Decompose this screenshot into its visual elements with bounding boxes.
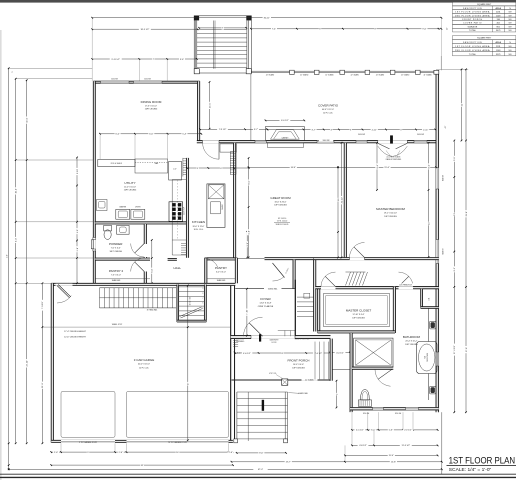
wall west exterior <box>93 81 95 283</box>
svg-text:S.F.: S.F. <box>508 30 512 32</box>
dim row mid-left above utility <box>100 133 201 135</box>
svg-text:10 Ft. CLG.: 10 Ft. CLG. <box>139 367 149 370</box>
dining closet rod and shelf <box>98 159 135 166</box>
svg-text:3068 ENTRY: 3068 ENTRY <box>269 340 278 342</box>
left dimension stack line A <box>8 68 10 469</box>
svg-text:3060 SW: 3060 SW <box>323 140 330 142</box>
cover patio guard rail north with posts <box>249 70 436 72</box>
wall dining east <box>198 81 200 140</box>
svg-text:TOTAL: TOTAL <box>469 53 477 56</box>
svg-text:7'-4": 7'-4" <box>272 29 276 31</box>
svg-text:O.F.S. 105.00: O.F.S. 105.00 <box>277 221 287 223</box>
top dimension row 2 right <box>251 28 441 30</box>
svg-text:11'-3 1/2": 11'-3 1/2" <box>401 445 410 447</box>
svg-text:18'-5 1/2": 18'-5 1/2" <box>140 29 149 31</box>
svg-text:SQUARE FEET: SQUARE FEET <box>477 3 492 6</box>
powder east wall with door <box>144 224 146 244</box>
powder sink <box>117 225 130 234</box>
kitchen counter south hatch <box>181 243 186 245</box>
svg-text:S.F.: S.F. <box>508 46 512 48</box>
deck side rails <box>194 21 196 69</box>
svg-text:DRYER: DRYER <box>135 207 141 209</box>
porch post <box>282 379 288 385</box>
garage stair up along north wall <box>99 288 101 308</box>
svg-text:AREA: AREA <box>495 41 501 44</box>
deck inner rail <box>213 21 215 69</box>
svg-text:2ND FLOOR LIVING AREA: 2ND FLOOR LIVING AREA <box>455 49 490 52</box>
window 5050 SW dining north 2 <box>134 81 163 83</box>
bathroom west wall <box>350 333 352 412</box>
svg-text:3050 SW: 3050 SW <box>417 134 424 136</box>
svg-text:10FT CEILING: 10FT CEILING <box>292 367 305 369</box>
upper deck stair structure top middle <box>194 16 251 73</box>
svg-text:16'-6": 16'-6" <box>291 167 297 169</box>
svg-text:7'-10": 7'-10" <box>247 309 249 315</box>
left dimension stack line B <box>15 79 17 444</box>
page bottom border lines <box>0 473 516 475</box>
bottom dim row 4 <box>232 461 442 463</box>
steps bottom posts <box>234 439 238 443</box>
window great room north small <box>255 140 267 143</box>
svg-text:S.F.: S.F. <box>508 54 512 56</box>
svg-text:8'-6": 8'-6" <box>428 164 430 168</box>
svg-text:14'-8" X 10'-8": 14'-8" X 10'-8" <box>260 303 272 305</box>
svg-text:24'-10": 24'-10" <box>27 360 29 367</box>
washer and dryer <box>116 209 130 219</box>
garage entry door at northwest <box>56 284 73 286</box>
svg-text:12'-6" CEILING HEIGHT: 12'-6" CEILING HEIGHT <box>64 336 87 338</box>
great room south rail line <box>237 257 265 259</box>
master closet east wall <box>393 287 395 333</box>
stair break diagonal <box>180 307 202 317</box>
svg-text:2'-6": 2'-6" <box>119 452 123 454</box>
svg-text:1ST FLOOR LIVING AREA: 1ST FLOOR LIVING AREA <box>455 11 490 14</box>
svg-text:UTILITY: UTILITY <box>124 181 135 185</box>
toilet master bath <box>358 400 371 407</box>
master bedroom interior dims <box>376 143 378 190</box>
svg-text:4'-11": 4'-11" <box>372 129 377 131</box>
svg-text:SUB FLR 104.85: SUB FLR 104.85 <box>276 224 289 226</box>
windows 3050 SW either side of patio doors <box>356 140 367 143</box>
bottom dim row garage doors <box>51 451 233 453</box>
svg-text:2ND FLOOR LIVING AREA: 2ND FLOOR LIVING AREA <box>455 14 490 17</box>
steps center handrail <box>247 392 249 441</box>
pantry hatch strip <box>183 158 187 160</box>
svg-text:SHELVES: SHELVES <box>217 280 226 282</box>
svg-text:1ST FLOOR LIVING AREA: 1ST FLOOR LIVING AREA <box>455 45 490 48</box>
svg-text:2'-9 1/2": 2'-9 1/2" <box>404 430 412 432</box>
svg-text:POWDER: POWDER <box>109 242 123 246</box>
svg-text:20'-0" X 11'-0": 20'-0" X 11'-0" <box>193 226 205 228</box>
svg-text:7'-6" X 6'-0": 7'-6" X 6'-0" <box>111 275 121 277</box>
svg-text:8'-6": 8'-6" <box>259 453 263 455</box>
cabinet dimension 6-6 <box>266 119 305 121</box>
svg-text:11'-6": 11'-6" <box>42 382 44 387</box>
svg-text:6'-6 1/2": 6'-6 1/2" <box>281 120 289 122</box>
corridor south wall / closet north <box>315 287 439 289</box>
window 6040 SH east wall 2 <box>436 240 439 264</box>
hall width dim above foyer <box>246 231 248 258</box>
svg-text:DINING ROOM: DINING ROOM <box>141 100 162 104</box>
svg-text:13'-6": 13'-6" <box>209 102 211 108</box>
svg-text:10FT CEILING: 10FT CEILING <box>274 205 287 207</box>
svg-text:10FT CEILING: 10FT CEILING <box>145 109 158 111</box>
svg-text:COVER PATIO: COVER PATIO <box>318 104 339 108</box>
pantry2 door arc <box>131 258 145 272</box>
square feet schedule table 1 <box>453 2 516 32</box>
left dimension stack line D <box>41 283 43 443</box>
master closet south wall <box>318 331 395 333</box>
powder door arc <box>131 244 145 258</box>
hall-stair wall segment <box>168 259 177 261</box>
corridor wall along master suite <box>314 258 439 260</box>
svg-text:S.F.: S.F. <box>508 50 512 52</box>
svg-text:4'-0 1/2": 4'-0 1/2" <box>336 352 344 354</box>
front entry steps <box>236 392 238 441</box>
window 3060 SW great room north <box>317 140 334 143</box>
svg-text:TOTAL: TOTAL <box>469 29 477 32</box>
svg-text:SCALE: 1/4" = 1'-0": SCALE: 1/4" = 1'-0" <box>449 467 492 472</box>
top dim extension lines <box>91 18 93 81</box>
svg-text:16' X 8' GARAGE DOOR: 16' X 8' GARAGE DOOR <box>168 441 188 444</box>
svg-text:DESCRIPTION: DESCRIPTION <box>463 42 482 44</box>
basement stair enclosure walls <box>177 285 179 323</box>
svg-text:2'-6": 2'-6" <box>54 452 58 454</box>
svg-text:3050 SH: 3050 SH <box>363 413 370 415</box>
svg-text:TUB: TUB <box>425 356 427 359</box>
svg-text:ROD & SHELF: ROD & SHELF <box>111 163 122 165</box>
svg-text:17'-2 1/2": 17'-2 1/2" <box>454 345 456 354</box>
svg-text:10FT CEILING: 10FT CEILING <box>352 317 365 319</box>
svg-text:19'-7": 19'-7" <box>286 462 292 464</box>
svg-text:6040 SH: 6040 SH <box>442 174 444 181</box>
svg-text:KITCHEN: KITCHEN <box>192 220 205 224</box>
svg-text:3'-0": 3'-0" <box>6 254 8 258</box>
kitchen north counter <box>220 144 236 152</box>
svg-text:4'-8 1/2": 4'-8 1/2" <box>359 445 367 447</box>
svg-text:3 CAR GARGE: 3 CAR GARGE <box>134 358 155 362</box>
cabinet hearth box below wall <box>268 143 304 148</box>
south wall bathroom with windows <box>350 408 439 410</box>
svg-text:MASTER CLOSET: MASTER CLOSET <box>346 308 372 312</box>
window east wall bathroom <box>436 352 439 366</box>
bottom dim row bathroom <box>352 429 438 431</box>
cabinet hatch on great room west wall <box>230 151 236 153</box>
master closet shelf inner rectangle <box>324 294 390 327</box>
svg-text:2'-0": 2'-0" <box>173 169 177 171</box>
svg-text:1ST FLOOR PLAN: 1ST FLOOR PLAN <box>449 455 515 465</box>
kitchen dim row <box>187 167 248 169</box>
square feet schedule table 2 <box>453 36 516 56</box>
svg-text:10'-0": 10'-0" <box>16 188 18 194</box>
pantry room <box>205 258 237 260</box>
svg-text:5'-6": 5'-6" <box>454 156 456 160</box>
svg-text:6'-0": 6'-0" <box>16 238 18 242</box>
top dimension row 1 overall <box>92 17 441 19</box>
garage south wall with door openings <box>51 440 233 442</box>
svg-text:7'-6 1/2": 7'-6 1/2" <box>315 353 323 355</box>
patio cabinet / outdoor fireplace <box>266 127 305 141</box>
svg-text:3'-0": 3'-0" <box>77 229 79 233</box>
svg-text:GREAT ROOM: GREAT ROOM <box>270 196 291 200</box>
svg-text:10FT CEILING: 10FT CEILING <box>124 190 137 192</box>
svg-text:WHEEL STOP: WHEEL STOP <box>112 324 122 326</box>
svg-text:LIN.: LIN. <box>429 297 431 301</box>
utility counter sink west <box>97 200 108 211</box>
dining bar cabinet <box>135 159 168 173</box>
svg-text:10 Ft. CLG.: 10 Ft. CLG. <box>323 111 333 114</box>
svg-text:6'-6": 6'-6" <box>377 164 379 168</box>
svg-text:6'-0" X 6'-0": 6'-0" X 6'-0" <box>216 272 226 274</box>
svg-text:6040 SH: 6040 SH <box>442 248 444 255</box>
window 6040 SH east wall 1 <box>436 168 439 190</box>
kitchen west counter strip <box>171 180 173 256</box>
toilet compartment wall and door <box>352 367 393 369</box>
dim row kitchen side <box>200 128 267 130</box>
svg-text:2'-6": 2'-6" <box>229 452 233 454</box>
page top border band <box>0 0 516 3</box>
svg-text:15'-8": 15'-8" <box>391 462 397 464</box>
bottom dim row 2 <box>352 444 438 446</box>
svg-text:10FT CEILING: 10FT CEILING <box>384 216 397 218</box>
svg-text:42": 42" <box>445 125 447 128</box>
deck stair treads <box>197 29 247 31</box>
svg-text:PANTRY: PANTRY <box>215 266 227 270</box>
svg-text:8'-6": 8'-6" <box>248 180 250 184</box>
window 5050 SW dining north 1 <box>101 81 130 83</box>
steps newel dark bar <box>262 400 264 411</box>
porch south guard rail <box>232 379 331 381</box>
linen closet diagonal shelves <box>346 272 351 286</box>
porch steps east side <box>314 342 316 380</box>
svg-text:7'-3 1/2": 7'-3 1/2" <box>219 129 227 131</box>
svg-text:17'-8": 17'-8" <box>466 347 468 353</box>
bedroom door opening and arc into bedroom <box>350 257 365 260</box>
porch-bath side dims <box>330 352 350 354</box>
svg-text:5'-8": 5'-8" <box>248 230 250 234</box>
kitchen island with sink <box>207 184 225 228</box>
kitchen west wall <box>186 158 188 258</box>
svg-text:2'-11": 2'-11" <box>423 129 428 131</box>
top dimension row 3 <box>92 58 197 60</box>
svg-text:5'-10": 5'-10" <box>77 169 79 175</box>
foyer north wall and under-stair closet <box>265 258 314 260</box>
svg-text:7'-0 1/2": 7'-0 1/2" <box>42 301 44 309</box>
svg-text:COOK TOP: COOK TOP <box>184 207 186 215</box>
svg-text:HALL: HALL <box>174 266 182 270</box>
foyer width dim <box>246 289 248 336</box>
svg-text:GARAGE: GARAGE <box>468 25 478 28</box>
svg-text:6'-6": 6'-6" <box>115 134 119 136</box>
svg-text:3050 SW: 3050 SW <box>358 134 365 136</box>
svg-text:COVER PATIO: COVER PATIO <box>463 22 482 25</box>
svg-text:9'-6": 9'-6" <box>422 29 426 31</box>
svg-text:6'-6": 6'-6" <box>149 134 153 136</box>
garage west wall <box>51 283 53 442</box>
svg-text:2470 FRENCH DR: 2470 FRENCH DR <box>399 285 413 287</box>
svg-text:FRONT PORCH: FRONT PORCH <box>288 359 310 363</box>
svg-text:14 R @ 7 3/4": 14 R @ 7 3/4" <box>190 296 192 305</box>
svg-text:MASTER BEDROOM: MASTER BEDROOM <box>376 207 405 211</box>
garage interior dim <box>187 286 189 441</box>
utility south wall <box>95 222 186 224</box>
garage door recess rectangles <box>61 392 115 438</box>
svg-text:44'-6" X 12'-0": 44'-6" X 12'-0" <box>322 109 334 111</box>
closet door arc swings into corridor <box>321 286 336 289</box>
left interior dim line powder column <box>76 158 78 284</box>
svg-text:67'-4": 67'-4" <box>258 469 264 471</box>
house south wall at porch / foyer <box>231 336 331 339</box>
svg-text:12'-0" X 10'-0": 12'-0" X 10'-0" <box>124 187 136 189</box>
top dimension row 2 left <box>92 28 197 30</box>
svg-text:6'-0": 6'-0" <box>152 268 154 272</box>
great room vertical dims <box>248 158 250 258</box>
side door jamb on west wall <box>93 238 96 252</box>
svg-text:4'-6 1/2": 4'-6 1/2" <box>243 353 251 355</box>
east exterior wall <box>436 70 439 412</box>
svg-text:3'-7": 3'-7" <box>254 129 258 131</box>
svg-text:17'-6" X 13'-0": 17'-6" X 13'-0" <box>145 106 157 108</box>
master bedroom west wall <box>344 143 346 258</box>
great room dim row <box>249 166 436 168</box>
svg-text:5'-6": 5'-6" <box>389 430 393 432</box>
cover patio west edge line <box>250 73 252 141</box>
pantry2 east wall with door <box>144 272 146 284</box>
page left edge band <box>0 30 2 480</box>
svg-text:4'-5 1/2": 4'-5 1/2" <box>356 430 364 432</box>
svg-text:7'-6" X 6'-0": 7'-6" X 6'-0" <box>111 248 121 250</box>
svg-text:10 Ft. CLG.: 10 Ft. CLG. <box>194 228 204 231</box>
svg-text:5050 SW: 5050 SW <box>144 79 151 81</box>
steps at garage door to house <box>233 340 238 342</box>
shower with cross <box>354 338 393 367</box>
bathroom door arc swings into corridor <box>399 286 414 289</box>
dining interior vertical dim <box>209 82 211 129</box>
steps bottom dim <box>237 452 286 454</box>
porch dims <box>235 352 330 354</box>
bottom dim extension lines <box>351 412 353 430</box>
svg-text:2'-8": 2'-8" <box>77 247 79 251</box>
left dim connectors <box>9 67 93 69</box>
garage door side dim <box>235 352 247 354</box>
door dining to great room + swing arc <box>203 140 220 143</box>
svg-text:OPEN TO ABOVE: OPEN TO ABOVE <box>258 305 274 308</box>
svg-text:16'-0" X 6'-6": 16'-0" X 6'-6" <box>293 364 304 366</box>
stair to second floor <box>294 280 296 336</box>
powder toilet <box>104 225 112 231</box>
svg-text:2068 DOOR: 2068 DOOR <box>236 339 245 341</box>
svg-text:9' X 8' GARAGE DOOR: 9' X 8' GARAGE DOOR <box>79 441 98 444</box>
hall vertical dim <box>151 240 153 283</box>
svg-text:3'-1": 3'-1" <box>371 430 375 432</box>
hall-foyer guard rail <box>235 288 295 290</box>
wall great room / master bedroom north <box>197 141 439 143</box>
kitchen tall cabinet 2-0 <box>169 161 182 180</box>
garage east wall double <box>230 286 232 441</box>
patio dim row <box>268 129 436 131</box>
deck dim 7ft <box>199 27 246 29</box>
pantry door arc <box>205 259 218 268</box>
cook top with burners <box>169 202 183 222</box>
front entry door opening with sidelites <box>251 335 295 339</box>
svg-text:16'-6" X 26'-0": 16'-6" X 26'-0" <box>275 202 287 204</box>
right dimension stack <box>436 68 468 70</box>
svg-text:9'-11 1/2": 9'-11 1/2" <box>111 59 120 61</box>
svg-text:5050 SW: 5050 SW <box>111 79 118 81</box>
svg-text:AREA: AREA <box>495 7 501 10</box>
bottom overall dim <box>9 468 442 470</box>
garage north wall <box>51 283 235 285</box>
svg-text:FOYER: FOYER <box>260 297 271 301</box>
svg-text:%: % <box>509 42 511 44</box>
kitchen-great room boundary wall <box>234 143 236 258</box>
svg-text:36'-11": 36'-11" <box>264 18 271 20</box>
svg-text:10FT CEILING: 10FT CEILING <box>405 344 418 346</box>
foyer closet angled door <box>273 263 285 278</box>
powder south wall <box>95 258 150 260</box>
svg-text:19'-2" X 20'-10": 19'-2" X 20'-10" <box>384 213 397 215</box>
french patio doors to master bedroom <box>378 140 408 143</box>
deck posts white bottom <box>194 69 199 74</box>
svg-text:11'-6": 11'-6" <box>27 117 29 122</box>
svg-text:SQUARE FEET: SQUARE FEET <box>477 37 492 40</box>
svg-text:15'-6": 15'-6" <box>384 167 390 169</box>
basement stair treads <box>179 286 205 288</box>
svg-text:3'-6": 3'-6" <box>180 59 184 61</box>
svg-text:BATHROOM: BATHROOM <box>403 335 421 339</box>
bottom dim row 3 <box>345 454 438 456</box>
master closet walls <box>318 287 320 333</box>
svg-text:42": 42" <box>447 27 449 30</box>
vanity counter with two sinks <box>427 308 429 342</box>
svg-text:3'-7": 3'-7" <box>311 129 315 131</box>
freestanding tub <box>417 342 438 374</box>
svg-text:26'-10": 26'-10" <box>341 197 343 204</box>
linen closet northeast of bathroom <box>421 289 423 309</box>
wall dining room north <box>93 81 199 83</box>
svg-text:25'-8": 25'-8" <box>466 211 468 217</box>
svg-text:SIDELITE TEMPERED: SIDELITE TEMPERED <box>295 339 310 341</box>
svg-text:3050 SH: 3050 SH <box>395 413 402 415</box>
svg-text:10FT CEILING: 10FT CEILING <box>109 251 122 253</box>
porch east wall <box>330 339 332 381</box>
svg-text:PANTRY 2: PANTRY 2 <box>109 269 124 273</box>
svg-text:20'-4" X 10'-2": 20'-4" X 10'-2" <box>405 341 417 343</box>
patio corner post <box>434 70 439 74</box>
svg-text:15'-4": 15'-4" <box>389 455 395 457</box>
svg-text:40'-0" X 23'-0": 40'-0" X 23'-0" <box>138 364 150 366</box>
svg-text:12'-10" X 6'-6": 12'-10" X 6'-6" <box>353 314 365 316</box>
french door label corridor <box>396 283 415 286</box>
svg-text:SHELVES: SHELVES <box>112 280 121 282</box>
svg-text:5'-4": 5'-4" <box>182 134 186 136</box>
deck posts black top <box>194 16 199 21</box>
svg-text:6'-1": 6'-1" <box>454 267 456 271</box>
bottom-right separator line <box>441 412 443 474</box>
left dimension stack line C <box>26 80 28 443</box>
svg-text:17'-4" CEILING HEIGHT: 17'-4" CEILING HEIGHT <box>64 331 87 333</box>
